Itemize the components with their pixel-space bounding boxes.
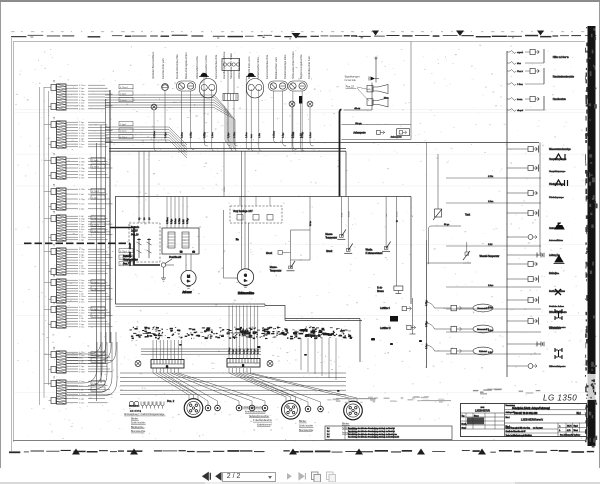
svg-text:13: 13: [53, 116, 56, 119]
svg-text:Kennzeichenleuchte: Kennzeichenleuchte: [214, 54, 218, 79]
engine compartment box outline: [116, 197, 412, 305]
svg-text:3~: 3~: [187, 280, 190, 283]
svg-text:Wendel-Temperatur: Wendel-Temperatur: [480, 255, 500, 258]
top comp: fuse black: [299, 96, 302, 104]
svg-text:Pos.22: Pos.22: [346, 84, 355, 88]
small connectors: [205, 405, 211, 411]
svg-text:1.5gn1: 1.5gn1: [120, 124, 127, 126]
branch Brennstoff II: [425, 321, 493, 333]
svg-text:braun: braun: [347, 211, 350, 217]
connector block X2: [44, 116, 133, 148]
svg-text:br: br: [396, 220, 399, 222]
svg-text:blau: blau: [342, 212, 344, 217]
svg-text:Getriebe Achse: Getriebe Achse: [549, 305, 565, 308]
right row y253 wire: [507, 253, 544, 258]
svg-text:1.5bl: 1.5bl: [79, 97, 84, 99]
svg-text:Pilotfahrpumpe: Pilotfahrpumpe: [549, 196, 564, 199]
svg-text:0.75sw: 0.75sw: [229, 347, 231, 354]
box step outline bottom: [265, 304, 362, 362]
right col pair 1: Hilfszuend: [507, 49, 575, 112]
svg-text:Beleuchtungsleuchten: Beleuchtungsleuchten: [184, 52, 188, 79]
svg-text:50: 50: [139, 217, 141, 220]
svg-text:1.5bl: 1.5bl: [79, 130, 84, 132]
svg-text:Verteiler Brennstoffanz.: Verteiler Brennstoffanz.: [151, 51, 155, 79]
left trunk wires: [39, 87, 41, 405]
svg-text:1.5sw1: 1.5sw1: [92, 282, 99, 284]
svg-text:R ckfahrscheinwerfer: R ckfahrscheinwerfer: [241, 406, 263, 409]
svg-text:4sw: 4sw: [251, 134, 253, 138]
svg-text:1.5ws: 1.5ws: [79, 313, 84, 315]
svg-text:1.5bl1: 1.5bl1: [92, 218, 99, 220]
svg-text:Pr f: Pr f: [327, 427, 330, 430]
svg-text:Positionslampe links: Positionslampe links: [283, 54, 287, 79]
svg-text:von Tag unter: von Tag unter: [533, 426, 543, 429]
svg-text:G: G: [244, 274, 247, 278]
svg-text:chapei: chapei: [517, 110, 524, 112]
svg-text:0.75rt: 0.75rt: [79, 351, 85, 354]
svg-text:2.5gn: 2.5gn: [79, 106, 85, 108]
svg-text:Erg.2: Erg.2: [574, 426, 578, 428]
page left edge line: [11, 38, 13, 451]
connector block X9: [44, 346, 113, 373]
svg-text:Handlampensteckdose: Handlampensteckdose: [222, 51, 226, 79]
right row y352 wire: [446, 352, 541, 354]
svg-text:1.5ws: 1.5ws: [488, 201, 493, 203]
svg-text:Bearb.: Bearb.: [462, 423, 468, 425]
svg-text:0.75gr: 0.75gr: [203, 132, 206, 138]
svg-text:2.5gn: 2.5gn: [79, 209, 85, 211]
svg-text:12.74: 12.74: [567, 426, 572, 428]
lower block fan arcs: [67, 332, 117, 396]
right row y262 Leitung im: [507, 254, 565, 275]
alternator G: [224, 151, 255, 295]
oildruck loop: [266, 197, 312, 261]
svg-text:Abblendlicht rechts: Abblendlicht rechts: [195, 56, 199, 79]
svg-text:Bremsleuchte: Bremsleuchte: [131, 430, 146, 433]
top comp: lamp 2: [289, 101, 295, 107]
svg-text:1.5gn: 1.5gn: [79, 271, 85, 273]
svg-text:1.5bl: 1.5bl: [488, 244, 493, 246]
svg-text:Blinkleuchte: Blinkleuchte: [131, 426, 144, 429]
mini terminal row Pos.2: [129, 400, 175, 413]
indicator lamp right: [267, 361, 273, 367]
svg-text:2.5ws: 2.5ws: [79, 403, 84, 405]
svg-text:1.5sw: 1.5sw: [79, 103, 85, 105]
svg-text:2.5gn: 2.5gn: [79, 138, 85, 140]
branch Kaltstart: [426, 343, 493, 355]
svg-text:1.5bl: 1.5bl: [79, 194, 84, 196]
main feed thick trunk: [340, 110, 342, 197]
top horizontal bus lines: [105, 142, 539, 144]
connector block X5: [44, 210, 113, 241]
svg-text:Begrenzungsleuchte: Begrenzungsleuchte: [299, 54, 303, 79]
branch tank sender: [429, 154, 471, 264]
svg-text:2.5gn: 2.5gn: [79, 283, 85, 285]
branch motor-temperatur: [427, 242, 500, 263]
svg-text:Differentialsperre: Differentialsperre: [549, 365, 566, 368]
right row y356 Differentialsperre: [549, 348, 566, 368]
svg-text:Tag: Tag: [462, 415, 465, 417]
svg-text:1.5gn: 1.5gn: [79, 122, 85, 124]
top comp: headlight 1: [200, 79, 217, 99]
right row y330 wire: [446, 330, 541, 332]
top comp: socket box: [222, 59, 240, 101]
strip B up wires + labels: [229, 306, 260, 359]
risers bus to box: [139, 151, 151, 223]
svg-text:Went: Went: [574, 429, 579, 432]
right row y244 wire: [446, 244, 541, 246]
svg-text:wei: wei: [386, 213, 388, 217]
kuehlwasser switch: [366, 197, 391, 255]
far right feeder bus: [506, 51, 508, 377]
svg-text:Schlu leuchte: Schlu leuchte: [299, 424, 314, 427]
svg-text:1.5ws: 1.5ws: [488, 285, 493, 287]
mid vertical wires right of strip B: [301, 338, 336, 380]
svg-text:15: 15: [149, 217, 151, 220]
svg-text:0.75gr: 0.75gr: [79, 99, 85, 102]
svg-text:Masse-: Masse-: [325, 234, 333, 236]
svg-text:0.75rt: 0.75rt: [488, 175, 494, 178]
top comp: socket pair 1: [176, 81, 195, 91]
oildruck switch 2: [326, 197, 353, 254]
svg-text:0.75rt: 0.75rt: [79, 256, 85, 259]
top comp: dome lamp: [162, 84, 169, 91]
horn junction wires: [344, 83, 372, 111]
right row y147 Wasserstandanzeige: [507, 146, 571, 153]
svg-text:Pos. 2: Pos. 2: [167, 400, 175, 403]
svg-text:Nebelschlu leuchte: Nebelschlu leuchte: [249, 415, 269, 418]
svg-text:blau: blau: [517, 63, 522, 65]
svg-text:Luftfilter I: Luftfilter I: [380, 307, 390, 310]
svg-text:Plan b: Plan b: [517, 71, 524, 73]
svg-text:0.75gr: 0.75gr: [79, 198, 85, 201]
svg-text:1.5ws1: 1.5ws1: [92, 361, 99, 363]
right row y364 wire: [507, 364, 537, 369]
svg-text:0.75br: 0.75br: [79, 371, 85, 374]
svg-text:1.5br: 1.5br: [258, 133, 261, 138]
top comp: blackout lamp 1: [200, 73, 207, 77]
terminal strip B: [227, 359, 260, 368]
main switch feed heavy wire: [110, 228, 160, 266]
top rotated labels: [151, 51, 311, 79]
svg-text:2.5ws: 2.5ws: [175, 219, 177, 224]
svg-text:Benennung: Benennung: [506, 405, 515, 407]
svg-text:Pr f: Pr f: [327, 433, 330, 436]
svg-text:0.75rt1: 0.75rt1: [92, 315, 99, 318]
svg-text:Automatikkran: Automatikkran: [549, 239, 564, 242]
svg-text:1.5gn: 1.5gn: [79, 299, 85, 301]
main harness trunk verticals: [96, 143, 98, 401]
svg-text:2.5ws: 2.5ws: [181, 131, 183, 138]
svg-text:Wasserstandanzeige: Wasserstandanzeige: [549, 148, 571, 151]
svg-text:0.75sw: 0.75sw: [273, 131, 275, 138]
connector block X1: [44, 79, 133, 110]
svg-text:2.5ws: 2.5ws: [79, 125, 84, 127]
svg-text:50: 50: [180, 252, 183, 254]
connector block X6: [44, 243, 133, 275]
svg-text:1.5sw: 1.5sw: [426, 343, 428, 349]
toolbar next page button: [285, 471, 294, 482]
svg-text:Masse-: Masse-: [270, 267, 278, 269]
svg-text:1.5gn: 1.5gn: [79, 398, 85, 400]
svg-text:2.5ws: 2.5ws: [79, 158, 84, 160]
svg-text:0.75rt: 0.75rt: [79, 108, 85, 111]
svg-text:30/61: 30/61: [224, 186, 226, 192]
svg-text:0.75gr: 0.75gr: [79, 248, 85, 251]
svg-text:0.75rt: 0.75rt: [79, 140, 85, 143]
rueck-brems unit: [377, 197, 403, 294]
svg-text:Gel nde: Gel nde: [549, 273, 558, 275]
svg-text:R ck-: R ck-: [377, 288, 383, 290]
dirt marks (decorative): [179, 338, 422, 392]
svg-text:1.5bl: 1.5bl: [488, 352, 493, 354]
svg-text:1.5br: 1.5br: [79, 293, 84, 296]
svg-text:0.75gr: 0.75gr: [301, 132, 304, 138]
right row y285 wire: [446, 285, 541, 287]
connector block X7: [44, 274, 113, 303]
svg-text:1.5ws: 1.5ws: [246, 131, 248, 138]
svg-text:Kaltstart: Kaltstart: [479, 350, 487, 353]
box bottom second line: [116, 306, 266, 308]
svg-text:0.75br: 0.75br: [190, 132, 193, 138]
svg-text:1.5gn: 1.5gn: [171, 218, 173, 224]
svg-text:a: a: [559, 426, 560, 428]
svg-text:48 sw: 48 sw: [354, 108, 360, 110]
top comp: socket pair 3: [288, 81, 307, 91]
svg-text:Oberfl che Firma Ma stab W: Oberfl che Firma Ma stab W: [506, 430, 526, 433]
svg-text:1.5sw: 1.5sw: [79, 221, 85, 223]
svg-text:Gepr.: Gepr.: [462, 427, 467, 429]
toolbar first page button: [201, 471, 212, 482]
battery dashed box: [129, 223, 160, 262]
svg-text:im Gel nde: im Gel nde: [345, 80, 357, 82]
connector block X8: [44, 301, 113, 328]
svg-text:B+: B+: [236, 239, 239, 241]
svg-text:1.5sw: 1.5sw: [79, 204, 85, 206]
boundary dash-dot heavy line: [24, 242, 130, 244]
svg-text:1.5sw: 1.5sw: [79, 171, 85, 173]
svg-text:1.5ws: 1.5ws: [79, 381, 84, 383]
svg-text:2.5gn1: 2.5gn1: [92, 289, 99, 291]
branch Brennstoff I: [425, 300, 493, 312]
svg-text:Das nderung der nicht ohne Ge: Das nderung der nicht ohne Genehmigung s…: [348, 436, 399, 439]
svg-text:Brems: Brems: [377, 290, 384, 293]
svg-text:0.75rt: 0.75rt: [233, 132, 236, 138]
svg-text:Btv gn: Btv gn: [355, 122, 362, 125]
svg-text:Bl.2: Bl.2: [577, 412, 582, 415]
svg-text:1.5sw: 1.5sw: [79, 280, 85, 282]
svg-text:1.5gn: 1.5gn: [165, 132, 167, 138]
terminal strip A: [151, 360, 184, 369]
svg-text:LIEBHERR: LIEBHERR: [475, 409, 490, 413]
pencil smudge above title block (decorative): [473, 389, 540, 395]
svg-text:2.5ws: 2.5ws: [79, 369, 84, 371]
svg-text:Anl sser: Anl sser: [182, 291, 191, 294]
Anlassperre relay group: [342, 122, 412, 140]
luftfilter I: [380, 298, 416, 334]
right row y277 wire: [507, 276, 539, 283]
top comp: socket pair 2: [268, 81, 287, 91]
right row y201 wire: [446, 201, 541, 203]
svg-text:1.5sw: 1.5sw: [212, 132, 214, 138]
svg-text:Kennzeichenleuchte: Kennzeichenleuchte: [245, 410, 267, 413]
svg-text:21: 21: [53, 375, 56, 378]
svg-text:0.75br: 0.75br: [79, 93, 85, 96]
connector block X10: [44, 375, 113, 404]
svg-text:2.5ws: 2.5ws: [79, 91, 84, 93]
fuse relay box Pos23a-26: [162, 197, 199, 260]
svg-text:2.5ws: 2.5ws: [79, 302, 84, 304]
svg-text:19: 19: [53, 301, 56, 304]
toolbar last page button: [297, 471, 308, 482]
svg-text:b: b: [559, 430, 560, 432]
svg-text:1.5gn: 1.5gn: [283, 132, 285, 138]
svg-text:F rderbandleuchte: F rderbandleuchte: [253, 419, 273, 422]
svg-text:30 gn: 30 gn: [444, 224, 450, 226]
connector fan wires: [153, 368, 357, 406]
svg-text:14: 14: [53, 152, 56, 155]
svg-text:0.75sw1: 0.75sw1: [120, 87, 129, 89]
svg-text:1.5sw: 1.5sw: [488, 330, 494, 332]
svg-text:rt: rt: [411, 215, 414, 217]
svg-text:0.75br1: 0.75br1: [92, 166, 100, 169]
bus risers: [345, 151, 347, 196]
svg-text:2.5ws1: 2.5ws1: [120, 100, 127, 102]
svg-text:Schlu leuchte: Schlu leuchte: [131, 422, 146, 425]
svg-text:ldruck: ldruck: [326, 250, 333, 253]
svg-text:Hauptschalter: Hauptschalter: [123, 258, 138, 261]
right row y211 wire: [507, 210, 539, 217]
svg-text:LIEBHERRwerk: LIEBHERRwerk: [521, 417, 543, 421]
toolbar page copy icon 2: [325, 471, 337, 483]
svg-text:Hilfsz nd Ger te: Hilfsz nd Ger te: [553, 56, 570, 59]
svg-text:0.75br: 0.75br: [178, 218, 181, 224]
svg-text:1.5gn: 1.5gn: [79, 324, 85, 326]
svg-text:2.5gn: 2.5gn: [228, 132, 230, 138]
svg-text:Temperatur: Temperatur: [270, 269, 282, 272]
svg-text:2.5ws: 2.5ws: [79, 327, 84, 329]
svg-text:1.5sw: 1.5sw: [79, 252, 85, 254]
svg-text:4sw1: 4sw1: [92, 390, 98, 392]
svg-text:Rundumkennleuchte: Rundumkennleuchte: [553, 76, 575, 79]
top component drop wires: [154, 77, 314, 151]
svg-text:0.75br: 0.75br: [79, 127, 85, 130]
svg-text:1.5br: 1.5br: [79, 389, 84, 392]
svg-text:Rundumkennleuchte: Rundumkennleuchte: [175, 54, 179, 79]
svg-text:Steckdose: Steckdose: [129, 404, 140, 407]
svg-text:2.5ws1: 2.5ws1: [92, 160, 99, 162]
svg-text:Bremsleuchte: Bremsleuchte: [299, 429, 314, 432]
horn 1: [367, 85, 389, 100]
svg-text:4.75: 4.75: [567, 430, 571, 432]
svg-text:Kontrolleuchte Kab.: Kontrolleuchte Kab.: [307, 55, 311, 79]
svg-text:Pr f: Pr f: [327, 430, 330, 433]
svg-text:2.5gn: 2.5gn: [79, 307, 85, 309]
svg-text:vorn/hinten: vorn/hinten: [549, 327, 561, 330]
right row y191 Pilotfahrpumpe: [507, 180, 568, 199]
right row y271 Gel nde: [549, 273, 558, 275]
strip A up wires: [153, 340, 182, 360]
svg-text:0.75gr: 0.75gr: [425, 321, 428, 327]
svg-text:Kennzeichenleuchte: Kennzeichenleuchte: [265, 54, 269, 79]
svg-text:2.5gn1: 2.5gn1: [92, 309, 99, 311]
sensor wire labels: [342, 211, 415, 217]
svg-text:1.5sw1: 1.5sw1: [92, 231, 99, 233]
svg-text:0.75br: 0.75br: [79, 160, 85, 163]
top comp: control lamp: [151, 104, 157, 110]
connector block X4: [44, 183, 113, 210]
right distribution bus: [426, 240, 428, 368]
svg-text:0.75rt: 0.75rt: [79, 284, 85, 287]
right row y342 wire: [507, 342, 544, 347]
svg-text:0.75gr: 0.75gr: [79, 132, 85, 135]
scan top edge: [11, 31, 596, 40]
svg-text:Werda: Werda: [366, 249, 373, 252]
svg-text:Gez. Zeichnung Nr. Tag Name: Gez. Zeichnung Nr. Tag Name: [560, 434, 580, 437]
svg-text:4sw: 4sw: [79, 147, 83, 149]
riser x410 from frame: [410, 42, 412, 125]
svg-text:30: 30: [144, 217, 146, 220]
right row y326 vorn/hinten: [549, 327, 561, 330]
svg-text:2.5gn: 2.5gn: [79, 255, 85, 257]
svg-text:Kabeltrommel: Kabeltrommel: [257, 424, 272, 427]
svg-text:G: G: [166, 365, 168, 368]
svg-text:30: 30: [193, 252, 196, 254]
horn 2: [367, 98, 388, 107]
svg-text:1.5bl: 1.5bl: [183, 219, 185, 224]
svg-text:Kennleuchte vorn: Kennleuchte vorn: [161, 58, 165, 79]
svg-text:0.75sw: 0.75sw: [79, 321, 86, 323]
bottom horizontal wire bundle: [120, 373, 346, 395]
svg-text:Abzweigdose f r Fahrtrichtungs: Abzweigdose f r Fahrtrichtungsanzeige: [124, 413, 165, 416]
big connector 3: [344, 401, 363, 420]
title block: [461, 404, 587, 437]
svg-text:0.75gr: 0.75gr: [186, 218, 189, 224]
svg-text:K hlwasserstand: K hlwasserstand: [366, 252, 384, 255]
svg-text:Schaltplan (Elektr. Anlage/Fah: Schaltplan (Elektr. Anlage/Fahrzeug): [512, 407, 550, 410]
svg-text:0.75gr: 0.75gr: [79, 167, 85, 170]
eraser smudge above title block (decorative): [327, 396, 451, 403]
block1 bundle to top bus: [105, 95, 238, 151]
bottom noise band: [130, 327, 353, 340]
toolbar page copy icon 1: [310, 471, 322, 483]
riser 30/61: [223, 143, 225, 197]
svg-text:0.75sw: 0.75sw: [154, 131, 156, 138]
svg-text:0.75br1: 0.75br1: [92, 190, 100, 193]
horn feed wire: [369, 57, 379, 83]
svg-text:1.5bl1: 1.5bl1: [92, 198, 99, 200]
svg-text:1.5br: 1.5br: [79, 264, 84, 267]
svg-text:C 5sw: C 5sw: [517, 84, 523, 86]
luftfilter II: [380, 325, 416, 330]
svg-text:20: 20: [53, 346, 56, 349]
right row y235 Automatikkran: [507, 223, 565, 242]
svg-text:Hauptfahrpumpe: Hauptfahrpumpe: [549, 158, 567, 161]
bundle above strips: [141, 349, 261, 354]
top comp: headlight 2: [247, 79, 264, 99]
svg-text:1.5ws: 1.5ws: [79, 288, 84, 290]
horn labels: [345, 76, 371, 102]
svg-text:0.75gr1: 0.75gr1: [92, 224, 100, 227]
svg-text:Hauptfahrpumpe: Hauptfahrpumpe: [549, 170, 566, 173]
svg-text:Pos.7: Pos.7: [123, 262, 130, 265]
svg-text:2.5gn: 2.5gn: [488, 307, 493, 309]
toolbar prev page button: [214, 471, 223, 482]
top comp: blackout lamp 2: [247, 73, 254, 77]
svg-text:3~: 3~: [244, 280, 247, 283]
svg-text:4sw: 4sw: [79, 263, 83, 265]
svg-text:LG 1350: LG 1350: [543, 394, 577, 403]
